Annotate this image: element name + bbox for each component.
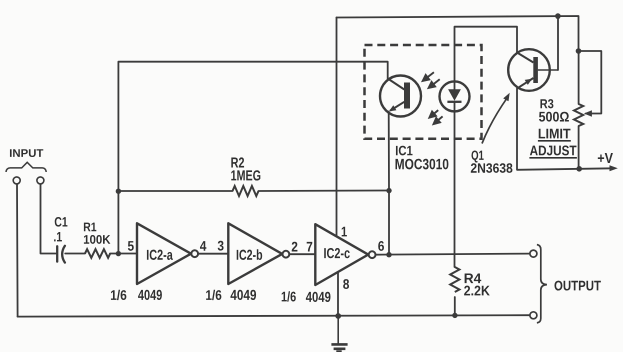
wire IC2-c out to output terminal [376,254,530,255]
wire IC2-b out [289,253,315,255]
wire Q1 emitter to +V rail [517,89,613,170]
junction at R3 top / wiper loop [576,48,582,54]
label 1/6 4049 b [206,290,221,300]
wire IC2-c pin8 to ground rail [337,272,339,316]
output brace [537,245,547,323]
LED of IC1 [440,81,470,111]
junction at R2 right / IC1 emitter [386,188,391,193]
pin 8 [343,279,349,289]
wire pin1 vertical [336,18,338,237]
label 1/6 4049 c [282,291,296,301]
label R2 value [231,157,244,167]
junction at R4 bottom / bottom rail [452,313,457,318]
annotation arrow to Q1 [482,93,510,144]
wire top rail [337,16,579,51]
phototransistor of IC1 [380,76,421,117]
light arrow lower 2 [438,116,443,120]
label 1/6 4049 a [111,290,126,300]
pin 7 [307,242,313,252]
wire IC1 emitter down to feedback and pin6 node [388,112,390,255]
wire R3 bottom lead [578,126,580,169]
wire LED anode to Q1 collector [455,27,518,90]
inverter IC2-a [137,223,198,284]
light arrow upper 1 [427,72,434,77]
label IC2-a [147,250,173,260]
ground [331,316,347,352]
input terminals [13,177,44,184]
wire input left lead [16,184,19,317]
output terminals [530,250,537,319]
pin 1 [342,227,347,237]
label +V [598,153,613,163]
label R1 value [84,223,96,232]
inverter IC2-b [228,223,289,284]
junction at R3 bottom / +V rail [576,166,582,172]
label IC2-c [324,248,350,258]
light arrow upper 2 [433,79,440,84]
optocoupler IC1 dashed box [365,45,482,139]
label R4 value [465,273,482,283]
pin 2 [292,242,298,252]
pin 3 [218,241,224,251]
resistor R1 [85,249,110,258]
+V arrowhead [610,165,618,171]
label LIMIT ADJUST [539,129,571,139]
pin 4 [200,241,206,251]
wire R1 to IC2-a pin5 [110,253,137,255]
wire bottom rail [18,315,530,316]
junction at pin 8 / ground [335,313,341,319]
wire feedback vertical and top horizontal to IC1 [118,62,387,254]
wire R3 top lead [578,51,580,104]
label Q1 value [471,150,483,162]
label OUTPUT [554,281,600,291]
transistor Q1 [508,49,558,91]
potentiometer R3 [574,104,592,126]
junction at R2 left / feedback vertical [116,189,121,194]
light arrow lower 1 [434,110,439,114]
junction at R1 / pin 5 / feedback node [116,251,121,256]
wire Q1 base up [557,16,559,70]
pin 6 [378,241,384,251]
pin 5 [128,241,134,251]
resistor R4 [450,267,459,292]
label IC1 value [396,146,413,156]
label IC2-b [237,249,262,260]
wire input right lead [41,184,56,254]
wire R3 wiper loop [579,51,602,114]
input brace [6,162,46,172]
label R3 value [540,99,553,108]
label C1 value [55,217,68,227]
wire IC2-a out [198,253,228,255]
inverter IC2-c [315,224,375,285]
label INPUT [10,149,43,157]
capacitor C1 [57,246,65,263]
junction at top rail / Q1 base [555,13,561,19]
wire R4 bottom lead [454,297,456,316]
resistor R2 [233,186,259,196]
wire LED cathode down [454,102,456,267]
wire R2 run [118,190,389,193]
wire C1 to R1 [65,253,85,255]
junction at pin 6 output node [386,252,391,257]
